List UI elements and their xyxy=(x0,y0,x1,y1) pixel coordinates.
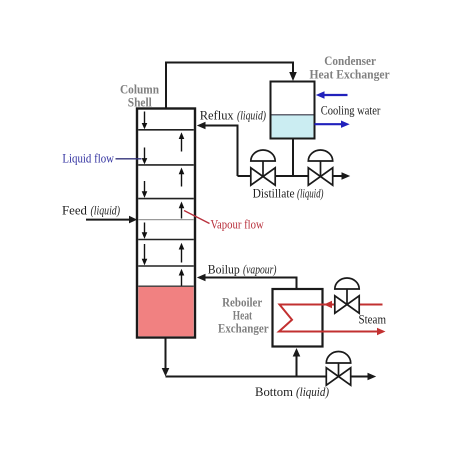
reboiler heat exchanger shell xyxy=(273,289,323,347)
control valve V3 (steam) xyxy=(335,278,359,313)
wire: condenser to distillate line xyxy=(292,139,294,177)
wire: feed arrow xyxy=(86,216,137,224)
liquid down arrow section2 xyxy=(142,148,148,165)
control valve V1 (reflux/distillate left) xyxy=(251,150,275,185)
svg-text:Exchanger: Exchanger xyxy=(218,321,269,336)
svg-text:(vapour): (vapour) xyxy=(243,261,277,276)
svg-text:Liquid flow: Liquid flow xyxy=(62,150,114,165)
svg-text:(liquid): (liquid) xyxy=(296,384,329,399)
label: Reflux (liquid) xyxy=(200,108,266,123)
label: Boilup (vapour) xyxy=(208,261,277,276)
wire: column bottoms downpipe xyxy=(162,338,170,377)
label: Feed (liquid) xyxy=(62,202,120,217)
svg-text:Shell: Shell xyxy=(128,95,152,110)
svg-text:Cooling water: Cooling water xyxy=(321,102,381,117)
tray line 1 xyxy=(138,129,194,131)
condenser heat exchanger shell xyxy=(271,82,315,139)
control valve V2 (distillate right) xyxy=(308,150,332,185)
column shell xyxy=(137,109,195,338)
wire: reflux line xyxy=(197,122,238,176)
leader line: vapour flow xyxy=(184,211,210,224)
tray line 5 xyxy=(138,239,194,241)
svg-text:Vapour flow: Vapour flow xyxy=(211,216,265,231)
svg-text:Steam: Steam xyxy=(359,312,387,327)
tray line 6 xyxy=(138,265,194,267)
cooling water outlet arrow (blue) xyxy=(315,121,350,128)
svg-text:Boilup: Boilup xyxy=(208,261,240,276)
steam coil (red) xyxy=(279,301,386,335)
liquid down arrow section3 xyxy=(142,181,148,198)
vapour up arrow section6 xyxy=(179,243,185,263)
vapour up arrow section3 xyxy=(179,168,185,187)
label: Distillate (liquid) xyxy=(253,186,324,201)
svg-text:Heat Exchanger: Heat Exchanger xyxy=(310,67,390,82)
wire: column top to condenser xyxy=(166,63,297,109)
svg-text:Distillate: Distillate xyxy=(253,186,295,201)
vapour up arrow section7 xyxy=(179,269,185,286)
label: Column Shell xyxy=(120,82,160,110)
tray line 2 xyxy=(138,164,194,166)
svg-text:Feed: Feed xyxy=(62,202,87,217)
vapour up arrow section4 xyxy=(179,202,185,219)
svg-text:(liquid): (liquid) xyxy=(237,108,266,123)
vapour up arrow section2 xyxy=(179,132,185,151)
leader line: liquid flow xyxy=(116,158,142,160)
svg-text:Bottom: Bottom xyxy=(255,384,293,399)
label: Condenser Heat Exchanger xyxy=(310,53,390,82)
wire: reboiler return pipe xyxy=(293,348,301,377)
wire: boilup vapour line xyxy=(197,274,297,289)
liquid down arrow section1 xyxy=(142,112,148,130)
control valve V4 (bottoms) xyxy=(326,351,350,385)
feed tray line (thin) xyxy=(138,219,194,221)
svg-text:(liquid): (liquid) xyxy=(91,202,121,217)
label: Reboiler Heat Exchanger xyxy=(218,294,269,335)
column bottoms liquid (red) xyxy=(138,287,193,337)
svg-text:(liquid): (liquid) xyxy=(297,186,324,201)
wire: distillate line xyxy=(238,172,351,180)
liquid down arrow section5 xyxy=(142,223,148,239)
tray line 3 xyxy=(138,198,194,200)
svg-text:Reflux: Reflux xyxy=(200,108,234,123)
label: Bottom (liquid) xyxy=(255,384,329,399)
liquid down arrow section6 xyxy=(142,244,148,265)
liquid surface line xyxy=(138,285,194,287)
cooling water inlet arrow (blue) xyxy=(316,91,348,98)
wire: bottoms line xyxy=(166,373,377,381)
